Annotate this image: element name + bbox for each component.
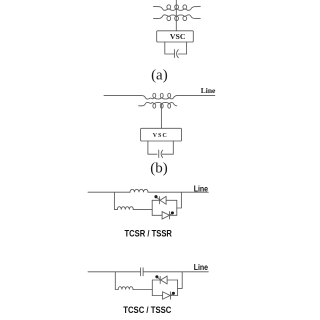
wire: left branch drop (TCSR) xyxy=(114,192,117,209)
svg-text:Line: Line xyxy=(194,184,209,193)
inductor L2 branch (TCSR) xyxy=(117,207,133,210)
transformer T1 secondary winding (fig a) xyxy=(154,15,201,21)
svg-text:TCSC / TSSC: TCSC / TSSC xyxy=(123,305,171,316)
thyristor V3 (TCSC top, pointing left) xyxy=(152,275,177,284)
wire: transmission line right segment (TCSC) xyxy=(143,271,208,273)
wire: thyristor loop right edge (TCSR) xyxy=(176,200,178,215)
thyristor V2 (TCSR bottom, pointing right) xyxy=(152,211,177,219)
capacitor C1 DC-link (fig a) xyxy=(174,50,178,58)
wire: thyristor loop right edge (TCSC) xyxy=(177,280,179,296)
svg-text:Line: Line xyxy=(201,86,216,95)
wire: VSC input vertical (fig a) xyxy=(175,0,177,31)
svg-text:(b): (b) xyxy=(150,160,168,176)
wire: VSC input vertical (fig b) xyxy=(160,104,162,129)
wire: block to line connection (TCSC) xyxy=(178,272,183,289)
thyristor V1 (TCSR top, pointing left) xyxy=(152,195,177,204)
transformer T2 secondary winding (fig b) xyxy=(139,102,177,108)
wire: transmission line left segment (TCSC) xyxy=(88,271,141,273)
thyristor V4 (TCSC bottom, pointing right) xyxy=(152,292,177,299)
svg-text:(a): (a) xyxy=(151,68,168,84)
wire: transmission line right segment (fig b) xyxy=(177,95,215,97)
wire: transmission line right segment (TCSR) xyxy=(148,191,208,193)
wire: thyristor loop left edge (TCSR) xyxy=(151,200,153,215)
wire: block to line connection (TCSR) xyxy=(177,192,182,208)
wire: branch to thyristor block (TCSC) xyxy=(133,289,152,291)
svg-text:VSC: VSC xyxy=(170,33,186,41)
transformer T1 primary winding (fig a) xyxy=(154,5,201,11)
VSC box U1 (fig a) xyxy=(157,31,194,42)
wire: left branch drop (TCSC) xyxy=(115,272,118,290)
svg-text:TCSR / TSSR: TCSR / TSSR xyxy=(124,229,172,240)
wire: DC-link leads (fig b) xyxy=(148,141,173,154)
transformer T2 series winding (fig b) xyxy=(142,93,177,99)
svg-text:Line: Line xyxy=(194,263,209,272)
wire: transmission line left segment (fig b) xyxy=(104,95,142,97)
wire: DC-link leads (fig a) xyxy=(165,42,187,54)
capacitor C3 series (TCSC) xyxy=(141,268,144,276)
wire: thyristor loop left edge (TCSC) xyxy=(151,280,153,296)
VSC box U2 (fig b) xyxy=(141,128,182,141)
capacitor C2 DC-link (fig b) xyxy=(159,150,163,158)
inductor L1 series (TCSR) xyxy=(130,189,148,192)
inductor L3 branch (TCSC) xyxy=(118,287,133,290)
wire: branch to thyristor block (TCSR) xyxy=(133,209,152,211)
svg-text:VSC: VSC xyxy=(153,133,168,139)
wire: transmission line left segment (TCSR) xyxy=(88,191,130,193)
